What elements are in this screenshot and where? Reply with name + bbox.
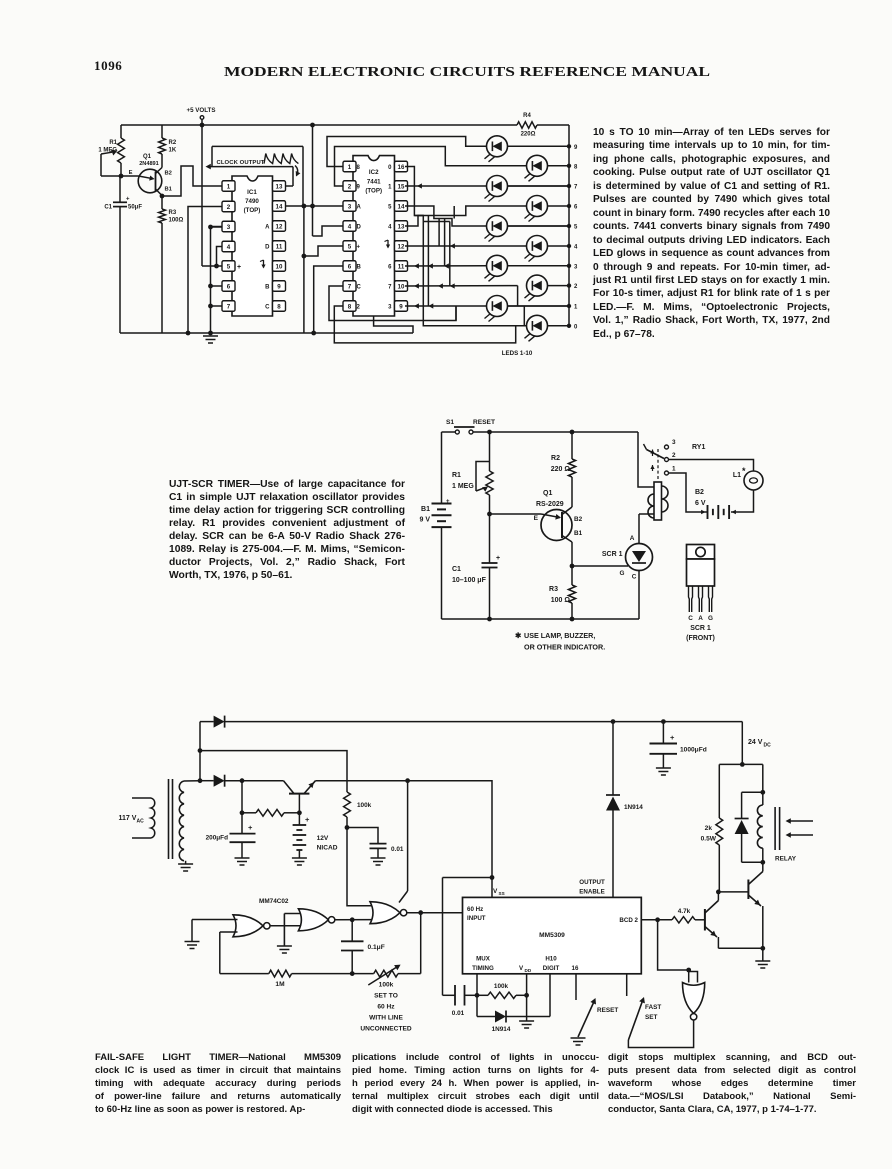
gate G4 NOR fast set (688, 970, 690, 983)
svg-text:6 V: 6 V (695, 500, 706, 507)
svg-text:3: 3 (672, 439, 676, 446)
wire SCR anode (638, 514, 640, 544)
wire emitter line (101, 175, 139, 177)
resistor 1M (269, 970, 292, 977)
wire IC2 pin3 to IC1 region (304, 205, 343, 207)
svg-text:0.5W: 0.5W (701, 836, 717, 843)
svg-text:IC2: IC2 (369, 169, 379, 176)
wire LED left stubs (485, 145, 487, 147)
svg-text:200μFd: 200μFd (206, 835, 228, 842)
wire battery B2 to contact 1 (669, 473, 708, 512)
svg-text:1000μFd: 1000μFd (680, 747, 707, 754)
svg-text:G: G (708, 615, 713, 622)
svg-text:2: 2 (348, 183, 352, 190)
relay RY1 contacts (665, 445, 669, 449)
svg-text:B2: B2 (695, 489, 704, 496)
svg-text:R4: R4 (523, 113, 531, 119)
wire IC2 pin4 jog (313, 226, 344, 236)
wire BCD2 to gate4 (658, 920, 689, 970)
svg-text:100Ω: 100Ω (169, 218, 184, 224)
svg-text:B1: B1 (165, 187, 173, 193)
svg-text:B: B (357, 264, 362, 270)
svg-text:50μF: 50μF (128, 205, 142, 211)
transistor Q1 RS-2029 UJT (541, 510, 572, 541)
svg-text:B1: B1 (421, 506, 430, 513)
wire line B to 100k (200, 751, 347, 792)
svg-text:A: A (698, 615, 703, 622)
svg-text:1K: 1K (169, 148, 177, 154)
transistor Q1 2N4891 UJT (138, 169, 162, 193)
svg-text:4: 4 (348, 223, 352, 230)
svg-text:14: 14 (398, 203, 405, 210)
diode 1N914 output enable (611, 719, 616, 724)
node D2 output (240, 778, 245, 783)
capacitor 1000uFd (661, 719, 666, 724)
wire IC2 pin6 to rail (314, 266, 343, 333)
svg-text:3: 3 (227, 224, 231, 231)
svg-text:E: E (534, 515, 539, 522)
svg-text:R2: R2 (551, 455, 560, 462)
svg-text:10: 10 (398, 283, 405, 290)
svg-text:13: 13 (398, 223, 405, 230)
relay coil (762, 764, 764, 805)
svg-text:0: 0 (574, 324, 578, 330)
resistor R4 220 ohm (517, 122, 537, 128)
wire IC2 bottom stubs (374, 316, 413, 333)
wire braid stub e (453, 206, 455, 219)
svg-text:+: + (248, 823, 253, 832)
svg-text:12: 12 (276, 223, 283, 230)
svg-text:IC1: IC1 (247, 189, 257, 196)
wire IC2 pin10 row 2 (405, 285, 518, 287)
clock arrow to IC1 (295, 166, 298, 176)
ground G1 input (185, 941, 200, 943)
svg-text:100k: 100k (494, 983, 509, 990)
svg-text:10: 10 (276, 263, 283, 270)
wire rail down to relay coil (638, 432, 654, 487)
svg-text:15: 15 (398, 183, 405, 190)
wire pin16 stub / reset stub (575, 974, 577, 1000)
node B1 junction (160, 194, 165, 199)
svg-text:1M: 1M (275, 981, 285, 988)
svg-text:14: 14 (276, 203, 283, 210)
node R1/C1/emitter junction (119, 174, 124, 179)
IC1 left pins 1-7 (222, 181, 235, 192)
svg-text:12: 12 (398, 243, 405, 250)
svg-text:Q1: Q1 (543, 490, 552, 497)
svg-text:100 Ω: 100 Ω (551, 597, 571, 604)
svg-text:8: 8 (348, 303, 352, 310)
LED 2 (output 8) (527, 155, 548, 176)
wire IC2 pin7 jog (329, 286, 456, 321)
svg-text:NICAD: NICAD (317, 845, 338, 852)
wire braid strand b (438, 219, 440, 247)
svg-text:2N4891: 2N4891 (139, 161, 159, 167)
svg-text:RS-2029: RS-2029 (536, 501, 564, 508)
svg-text:6: 6 (227, 283, 231, 290)
transistor Q pass NPN (289, 793, 309, 795)
wire Vss stub into IC (491, 878, 493, 898)
ground 0.01 top (371, 857, 386, 859)
svg-text:DC: DC (764, 743, 772, 749)
resistor 100k charge (344, 792, 351, 817)
svg-text:7: 7 (227, 303, 231, 310)
node Vdd line junction (405, 778, 410, 783)
svg-text:12V: 12V (317, 835, 329, 842)
ground 200uFd (235, 857, 250, 859)
battery 12V NICAD (298, 813, 300, 825)
wire Vss branch left (443, 877, 493, 879)
ground 1000uFd (656, 767, 671, 769)
svg-text:RY1: RY1 (692, 444, 705, 451)
svg-text:+: + (237, 264, 241, 271)
svg-text:G: G (620, 570, 625, 577)
transformer T1 core (168, 779, 170, 859)
svg-text:R1: R1 (109, 140, 117, 146)
capacitor C1 10-100uF (489, 514, 491, 563)
resistor R3 100 ohm (161, 196, 163, 209)
svg-text:13: 13 (276, 183, 283, 190)
svg-text:60 Hz: 60 Hz (467, 906, 483, 913)
svg-text:+: + (305, 815, 310, 824)
LED 10 (output 0) (527, 315, 548, 336)
svg-text:0.01: 0.01 (452, 1010, 465, 1017)
svg-text:3: 3 (574, 264, 578, 270)
svg-text:UNCONNECTED: UNCONNECTED (360, 1026, 412, 1033)
wire +5V to IC1 pin5 (200, 123, 205, 128)
svg-text:(TOP): (TOP) (365, 188, 382, 195)
svg-text:1: 1 (227, 183, 231, 190)
LED 7 (output 3) (487, 255, 508, 276)
svg-text:RESET: RESET (473, 419, 495, 426)
LED 9 (output 1) (487, 296, 508, 317)
diode 1N914 bottom (476, 995, 478, 1016)
LED 4 (output 6) (527, 196, 548, 217)
svg-text:RELAY: RELAY (775, 856, 797, 863)
op MM5309 clock IC (463, 897, 642, 973)
svg-text:+: + (670, 733, 675, 742)
ground Vdd (519, 1020, 534, 1022)
svg-text:C1: C1 (452, 566, 461, 573)
capacitor 0.01 top (347, 828, 378, 844)
svg-text:5: 5 (227, 263, 231, 270)
LED 8 (output 2) (527, 275, 548, 296)
op IC1 7490 DIP body (232, 176, 273, 316)
ground transformer secondary (185, 861, 187, 864)
switch FAST SET (626, 974, 628, 996)
wire Vdd line right (408, 781, 492, 878)
relay core lines (774, 807, 776, 850)
resistor 2k 0.5W (718, 764, 720, 818)
svg-text:MM74C02: MM74C02 (259, 898, 289, 905)
svg-text:1: 1 (574, 305, 578, 311)
svg-text:S1: S1 (446, 419, 454, 426)
wire braid strand c (444, 219, 446, 267)
switch RESET (578, 1001, 595, 1038)
svg-text:L1: L1 (733, 472, 741, 479)
svg-text:1: 1 (348, 164, 352, 171)
svg-text:(TOP): (TOP) (244, 207, 261, 214)
svg-text:C: C (265, 304, 270, 310)
wire IC1 pin1 to Q1 B1 (162, 166, 222, 196)
wire IC2 pin12 row 4 (405, 245, 526, 247)
svg-text:B1: B1 (574, 530, 583, 537)
node R1 bottom junction (487, 512, 492, 517)
battery B2 6V (707, 505, 709, 519)
wire left supply vertical (199, 722, 201, 781)
svg-text:INPUT: INPUT (467, 915, 486, 922)
wire IC2 pin11 row 3 (405, 265, 486, 267)
svg-text:AC: AC (137, 819, 145, 825)
svg-text:R3: R3 (549, 586, 558, 593)
capacitor 0.1uF (351, 920, 353, 942)
IC2 internal arrow symbol (387, 240, 389, 248)
svg-text:220 Ω: 220 Ω (551, 466, 571, 473)
IC2 left pins 1-8 (343, 161, 356, 172)
svg-text:FAST: FAST (645, 1004, 661, 1011)
wire braid jog top (414, 215, 423, 217)
ground G2 inputs (277, 945, 292, 947)
svg-text:R2: R2 (169, 140, 177, 146)
svg-text:4: 4 (574, 245, 578, 251)
svg-text:7441: 7441 (367, 179, 381, 186)
svg-text:+: + (446, 499, 450, 505)
svg-text:7490: 7490 (245, 198, 259, 205)
wire row0 jog (523, 306, 525, 326)
wire IC1 pin3 line (211, 226, 222, 228)
wire IC2 pin13 braid to row 6 (405, 206, 526, 226)
svg-text:B: B (265, 284, 270, 290)
wire Vdd stub to ground (526, 974, 528, 1021)
svg-text:3: 3 (348, 203, 352, 210)
wire braid jog mid (424, 221, 450, 223)
wire LED right bus (568, 125, 570, 326)
svg-text:8: 8 (574, 164, 578, 170)
ground NICAD (292, 857, 307, 859)
wire G1 input A grounded (192, 919, 238, 921)
svg-text:Q1: Q1 (143, 154, 152, 160)
wire braid strand a (427, 216, 429, 307)
TO-220 package SCR1 front view (687, 545, 715, 560)
svg-text:4: 4 (227, 244, 231, 251)
svg-text:1: 1 (672, 466, 676, 473)
svg-text:60 Hz: 60 Hz (377, 1004, 395, 1011)
ground RESET (571, 1037, 586, 1039)
wire IC1 ground bus pins 3,6,7 (211, 226, 223, 228)
svg-text:SS: SS (499, 891, 505, 896)
transformer T1 secondary (179, 781, 184, 861)
svg-text:+: + (126, 197, 130, 203)
svg-text:R3: R3 (169, 210, 177, 216)
wire timing line (220, 973, 269, 975)
resistor R1 1 MEG rheostat (489, 432, 491, 471)
clock output callout box (212, 145, 303, 147)
svg-text:2: 2 (672, 452, 676, 459)
svg-text:9 V: 9 V (419, 517, 430, 524)
wire top +5V rail (121, 124, 517, 126)
wire MUX TIMING stub (476, 974, 478, 996)
LED 3 (output 7) (487, 176, 508, 197)
wire rail to LED bus corner (537, 124, 569, 126)
svg-text:1N914: 1N914 (624, 804, 643, 811)
svg-text:8: 8 (277, 303, 281, 310)
capacitor 200uFd (241, 781, 243, 834)
wire G1 input B feedback (220, 931, 238, 933)
svg-text:2k: 2k (705, 825, 713, 832)
wire IC2 pin5 jog (304, 246, 343, 256)
svg-text:2: 2 (574, 284, 578, 290)
svg-text:16: 16 (572, 965, 579, 972)
svg-text:C: C (688, 615, 693, 622)
wire IC2 pin15 row 7 (405, 185, 486, 187)
capacitor 0.01 bottom (443, 994, 456, 996)
op IC2 7441 DIP body (353, 156, 395, 316)
svg-text:DIGIT: DIGIT (543, 965, 560, 972)
svg-text:(FRONT): (FRONT) (686, 635, 715, 642)
wire IC2 pin14 braid to row 5 (405, 206, 486, 226)
svg-text:TIMING: TIMING (472, 965, 494, 972)
svg-text:LEDS 1-10: LEDS 1-10 (502, 350, 533, 357)
wire G1 out to G2 (270, 925, 304, 927)
svg-text:*: * (742, 466, 746, 476)
svg-text:MUX: MUX (476, 956, 491, 963)
wire 24V down to relay network (741, 722, 743, 765)
wire IC1 pin13 to clock box (283, 185, 293, 187)
svg-text:+: + (496, 555, 500, 562)
svg-text:A: A (265, 224, 270, 230)
svg-text:1 MEG: 1 MEG (452, 483, 474, 490)
node Q1 B1 to gate junction (571, 542, 573, 566)
svg-text:+: + (357, 244, 361, 250)
node Vss junction (490, 875, 495, 880)
svg-text:7: 7 (348, 283, 352, 290)
wire R1 wiper (476, 462, 490, 492)
svg-text:10–100 μF: 10–100 μF (452, 577, 487, 584)
wire Vdd to gate3 (407, 781, 409, 891)
wire IC2 pin16 to LED row 0 (405, 167, 526, 326)
svg-text:DD: DD (525, 968, 532, 973)
wire G2 out to G3 (335, 919, 375, 921)
wire vertical from rail to IC2 pin3 node (310, 123, 315, 128)
svg-text:V: V (493, 888, 498, 895)
wire gate line to SCR (572, 565, 628, 567)
svg-text:0.01: 0.01 (391, 846, 404, 853)
wire contact 2 to lamp (669, 460, 754, 472)
svg-text:R1: R1 (452, 472, 461, 479)
wire bottom rail middle (442, 618, 640, 620)
svg-text:1N914: 1N914 (492, 1026, 511, 1033)
svg-text:CLOCK OUTPUT: CLOCK OUTPUT (217, 160, 265, 166)
resistor R3 100 ohm (571, 566, 573, 585)
wire IC2 pin8 to bottom loop (334, 306, 515, 343)
resistor 4.7k (655, 917, 660, 922)
svg-text:5: 5 (574, 225, 578, 231)
svg-text:MM5309: MM5309 (539, 932, 565, 939)
svg-text:SCR 1: SCR 1 (690, 625, 711, 632)
svg-text:11: 11 (398, 263, 405, 270)
svg-text:2: 2 (227, 204, 231, 211)
svg-text:D: D (265, 244, 270, 250)
svg-text:H10: H10 (545, 956, 557, 963)
node S1/R1 junction (487, 430, 492, 435)
svg-text:USE LAMP, BUZZER,: USE LAMP, BUZZER, (524, 631, 595, 640)
switch S1 RESET pushbutton (455, 430, 459, 434)
wire IC1 pin2 to rail (188, 207, 222, 334)
wire relay coil bottom to SCR anode (639, 513, 654, 515)
svg-text:4.7k: 4.7k (678, 908, 691, 915)
svg-text:B2: B2 (574, 516, 583, 523)
svg-text:✱: ✱ (515, 631, 522, 640)
node NICAD base junction (297, 810, 302, 815)
svg-text:A: A (357, 204, 362, 210)
svg-text:6: 6 (348, 263, 352, 270)
svg-text:D: D (357, 224, 362, 230)
svg-text:7: 7 (574, 185, 578, 191)
wire row2 jog (517, 286, 519, 306)
lamp L1 (744, 471, 763, 490)
svg-text:1096: 1096 (94, 58, 122, 73)
svg-text:+5 VOLTS: +5 VOLTS (187, 107, 216, 114)
diode D2 (200, 780, 214, 782)
svg-text:MODERN ELECTRONIC CIRCUITS REF: MODERN ELECTRONIC CIRCUITS REFERENCE MAN… (224, 64, 710, 79)
svg-text:C: C (632, 574, 637, 581)
wire IC2 pin1 feed to LED row 9 (327, 137, 486, 167)
svg-text:BCD 2: BCD 2 (619, 917, 638, 924)
svg-text:E: E (129, 170, 133, 176)
svg-text:5: 5 (348, 243, 352, 250)
battery B1 9V (441, 432, 443, 504)
svg-text:9: 9 (574, 145, 578, 151)
wire 100k to gate3 input (347, 828, 374, 906)
svg-text:16: 16 (398, 164, 405, 171)
svg-text:6: 6 (574, 205, 578, 211)
wire top rail middle circuit (442, 431, 456, 433)
node 200uFd resistor junction (240, 810, 245, 815)
diode D1 top (200, 721, 214, 723)
wire emitter bus to ground (718, 947, 762, 949)
wire IC1 pin4 to Vcc (217, 247, 223, 267)
wire IC2 pin9 row 1 (405, 305, 486, 307)
svg-text:11: 11 (276, 243, 283, 250)
svg-text:C: C (357, 284, 362, 290)
wire secondary top to diode D2 (184, 780, 200, 782)
transistor Q2a driver (704, 909, 706, 931)
wire IC1 pin14 loop (283, 205, 303, 207)
LED 5 (output 5) (487, 216, 508, 237)
wire bottom ground rail (120, 332, 413, 334)
wire lamp to battery B2 (731, 490, 754, 512)
svg-text:SET: SET (645, 1014, 658, 1021)
svg-text:0.1μF: 0.1μF (368, 944, 385, 951)
diode flyback relay (742, 791, 763, 793)
svg-text:24 V: 24 V (748, 739, 763, 746)
capacitor C1 50uF (119, 176, 121, 202)
wire G3 output to MM5309 (407, 912, 463, 914)
relay RY1 coil (654, 482, 662, 520)
svg-text:9: 9 (399, 303, 403, 310)
svg-text:100k: 100k (357, 802, 372, 809)
gate G1 NOR (233, 915, 263, 937)
svg-text:100k: 100k (379, 982, 394, 989)
resistor trickle charge (242, 812, 256, 814)
resistor R2 1K (161, 125, 163, 138)
svg-text:C1: C1 (104, 205, 112, 211)
svg-text:OUTPUT: OUTPUT (579, 879, 605, 886)
node 100k bottom junction (346, 817, 348, 828)
svg-text:SET TO: SET TO (374, 993, 398, 1000)
svg-text:WITH LINE: WITH LINE (369, 1015, 403, 1022)
ground darlington (755, 960, 770, 962)
